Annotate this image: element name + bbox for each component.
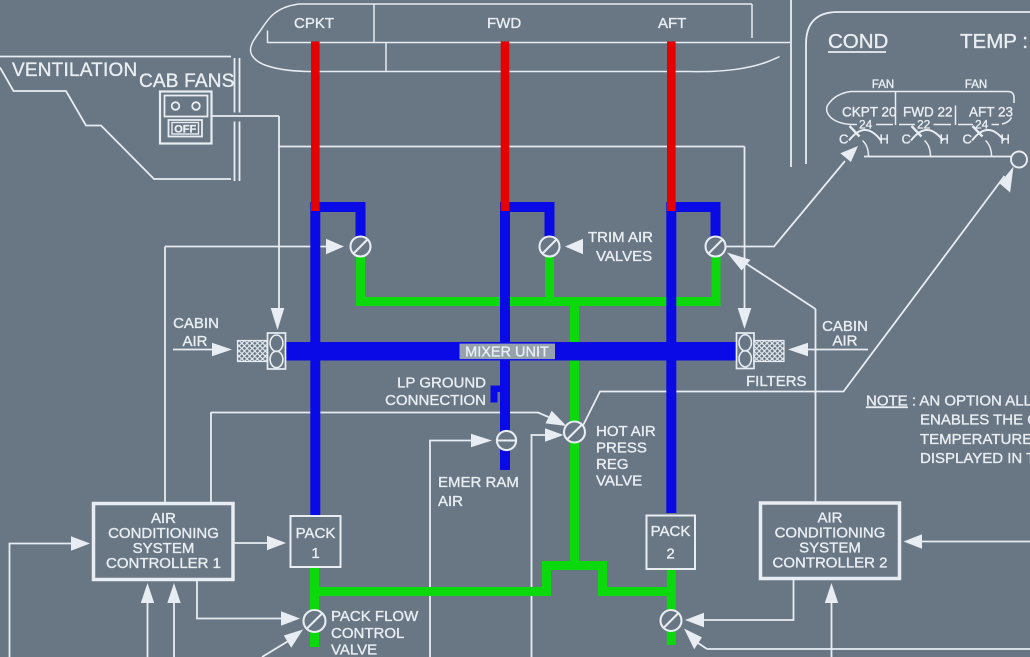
COND hot air temp circle [1011,152,1027,168]
arrow into ACSC2 right [904,534,923,549]
COND display divider 1 [895,92,897,126]
svg-text:AIR: AIR [832,333,857,350]
pack flow control valve 2 [661,610,682,631]
svg-text:24: 24 [975,118,989,132]
trim air valve 1 [351,237,371,257]
wire left cabin air inlet [173,349,212,351]
wire left boundary to ACSC1 [164,247,166,504]
green trim line valve3 down [712,254,721,306]
svg-text:22: 22 [917,118,931,132]
wire trim valve 3 to COND gauge [725,161,845,247]
LP ground connection stub (blue) [491,386,503,403]
wire to trim valve 1 [165,246,327,248]
svg-text:AFT: AFT [658,15,686,32]
svg-text:CPKT: CPKT [294,15,334,32]
wire bottom right bus [707,648,1030,650]
svg-text:LP GROUND: LP GROUND [397,375,486,392]
arrow into right filter [738,308,752,329]
svg-text:OFF: OFF [174,123,196,135]
COND gauge tail CKPT [863,141,869,157]
green staircase left leg [542,561,551,596]
COND gauge arc AFT [972,130,1004,141]
green trim line valve1 down [356,254,365,306]
wire page-break double line upper [235,58,240,113]
fuselage aft pressure bulkhead edge [751,4,753,38]
arrow up into ACSC1 A [141,583,154,603]
green hot air main vertical [570,297,579,570]
svg-text:H: H [940,132,949,147]
svg-text:COND: COND [828,30,888,53]
CAB FANS control box [160,92,212,144]
wire ACSC2 to pack flow control valve 2 [704,580,794,620]
svg-text:PACK: PACK [296,525,336,542]
svg-text:AIR: AIR [438,493,463,510]
svg-text:NOTE : AN OPTION ALLOWS: NOTE : AN OPTION ALLOWS [866,393,1030,410]
wire lower arrow to hot air valve [532,435,546,657]
wire right cabin air inlet [808,349,868,351]
trim air valve 2 [540,237,560,257]
arrow up into ACSC2 [825,583,838,603]
svg-text:CABIN: CABIN [173,315,219,332]
green staircase upper horizontal [542,561,607,570]
svg-text:CAB FANS: CAB FANS [139,71,235,92]
arrow to trim valve 2 from label [565,239,583,255]
svg-text:TEMP : 2: TEMP : 2 [960,30,1030,53]
duct AFT cold main (blue) [666,202,720,513]
svg-text:PRESS: PRESS [596,440,647,457]
mixer unit label plate [460,344,556,360]
svg-text:1: 1 [311,545,319,562]
COND dash row [851,124,999,126]
box PACK 2 [647,516,696,570]
fuselage cabin floor line [268,42,791,44]
svg-text:FILTERS: FILTERS [746,373,807,390]
wire upper arrow to hot air press reg valve [211,412,549,503]
duct FWD vertical (blue) [500,202,510,470]
arrow lower into hot air valve [545,428,564,442]
duct CPKT cold main (blue) [310,202,365,516]
arrow to trim valve 1 [326,239,344,255]
op box ACSC1 [94,504,234,580]
right filter roller box [737,333,785,369]
svg-text:TRIM AIR: TRIM AIR [588,229,653,246]
pack flow control valve 1 [304,610,326,632]
svg-text:EMER RAM: EMER RAM [438,474,519,491]
svg-text:CONTROLLER 2: CONTROLLER 2 [772,555,887,572]
wire ACSC1 to pack flow control valve 1 [197,580,281,619]
arrow into PACK1 [267,536,286,551]
svg-text:PACK FLOW: PACK FLOW [331,608,419,625]
svg-text:VENTILATION: VENTILATION [12,60,137,81]
wire ventilation top boundary [0,56,231,58]
svg-text:CONTROL: CONTROL [331,625,404,642]
svg-text:24: 24 [859,118,873,132]
left filter hatch element [238,333,286,369]
svg-text:VALVES: VALVES [596,248,652,265]
wire page-break double line lower [235,122,240,182]
mixer unit bar (blue) [286,342,737,361]
COND gauge needle CKPT [850,126,860,137]
svg-text:REG: REG [596,456,629,473]
svg-text:CONTROLLER 1: CONTROLLER 1 [106,555,221,572]
arrow up-left into trim valve 3 [727,253,751,271]
green trim line valve2 down [545,254,554,302]
COND mini fuselage outline [827,92,1014,125]
COND gauge needle FWD [912,126,922,137]
fuselage bottom line with tail curve [307,57,780,72]
wire ACSC1 to PACK1 [233,542,267,544]
wire emer ram air feed [430,441,471,657]
wire cabin air branch down to ACSC2 [815,309,817,503]
hot air press reg valve [564,422,585,443]
duct hot trim air CPKT (red) [311,42,320,212]
svg-text:FAN: FAN [872,79,894,91]
arrow up into ACSC1 B [167,583,180,603]
wire cab-fan recirc down to left filter [278,116,280,308]
svg-text:CONNECTION: CONNECTION [385,392,486,409]
green pack supply bar left [310,587,551,596]
svg-text:VALVE: VALVE [596,473,642,490]
svg-text:ENABLES THE CABIN: ENABLES THE CABIN [920,412,1030,429]
wire COND page left border [790,0,792,167]
duct hot trim air AFT (red) [667,42,676,212]
green staircase right leg [598,561,607,596]
svg-text:C: C [902,132,911,147]
wire diagonal trim valve 3 feed [746,264,816,310]
green PACK2 outlet vertical [667,568,676,645]
svg-text:H: H [1001,132,1010,147]
arrow into valve 1 [281,611,300,626]
svg-text:TEMPERATURES TO: TEMPERATURES TO [920,431,1030,448]
fuselage cockpit divider lower [385,43,387,72]
fuselage cockpit divider upper [373,4,375,43]
arrow up-right to COND circle [1000,167,1014,193]
right filter hatch element [754,341,784,362]
duct FWD cold U (blue) [500,202,555,238]
fuselage windshield edge [267,31,269,44]
COND gauge arc FWD [911,130,943,141]
green trim air manifold horizontal [356,297,721,306]
emer ram air valve (closed) [497,431,516,450]
fuselage top outline [251,4,753,72]
wire CAB FANS output [211,115,279,117]
arrow into emer ram air valve [471,434,492,448]
wire horizontal collector y146 [279,146,745,148]
wire diagonal into valve 2 [698,643,707,649]
COND tail swoosh [1002,118,1012,125]
arrow into ACSC1 left [71,536,90,551]
wire ventilation staircase outline [0,68,231,180]
arrow diagonal valve 1 [284,630,303,648]
arrow into left hatch filter [212,343,232,357]
wire ACSC1 bottom input B [173,603,175,657]
wire COND page frame with rounded corner [806,12,1030,164]
COND gauge tail FWD [925,141,931,157]
arrow into right filter side [788,343,808,357]
svg-text:MIXER UNIT: MIXER UNIT [465,344,549,360]
green PACK1 outlet vertical [310,567,319,647]
svg-text:DISPLAYED IN TENTH: DISPLAYED IN TENTH [920,450,1030,467]
wire diagonal into valve 1 [262,642,288,657]
wire down to right filter [744,147,746,309]
svg-text:C: C [839,132,848,147]
wire ACSC1 bottom input A [147,603,149,657]
COND gauge tail AFT [986,141,992,157]
arrow into left filter [271,308,285,330]
COND display divider 2 [955,106,957,126]
arrow diagonal valve 2 [684,629,702,650]
wire hot air valve to COND circle [583,176,1005,426]
trim air valve 3 [706,237,726,257]
arrow up-right to CKPT gauge [840,146,858,162]
wire ACSC2 bottom input [831,603,833,657]
COND bottom line [864,156,1011,158]
box PACK 1 [291,516,341,567]
svg-text:2: 2 [666,546,674,563]
svg-text:HOT AIR: HOT AIR [596,423,656,440]
op box ACSC2 [761,503,900,579]
svg-text:H: H [880,132,889,147]
svg-text:PACK: PACK [651,523,691,540]
arrow upper into hot air valve [546,411,567,426]
arrow into valve 2 [685,613,704,628]
svg-text:FWD: FWD [487,15,521,32]
COND gauge needle AFT [973,126,983,137]
green pack supply bar right [598,587,676,596]
svg-text:FAN: FAN [965,79,987,91]
wire ACSC2 right input [922,541,1030,543]
svg-text:AIR: AIR [182,333,207,350]
COND gauge arc CKPT [849,130,881,141]
wire ACSC1 left input [10,544,72,657]
svg-text:C: C [963,132,972,147]
svg-text:VALVE: VALVE [331,642,377,657]
left filter roller box [268,333,286,369]
duct hot trim air FWD (red) [501,42,510,212]
